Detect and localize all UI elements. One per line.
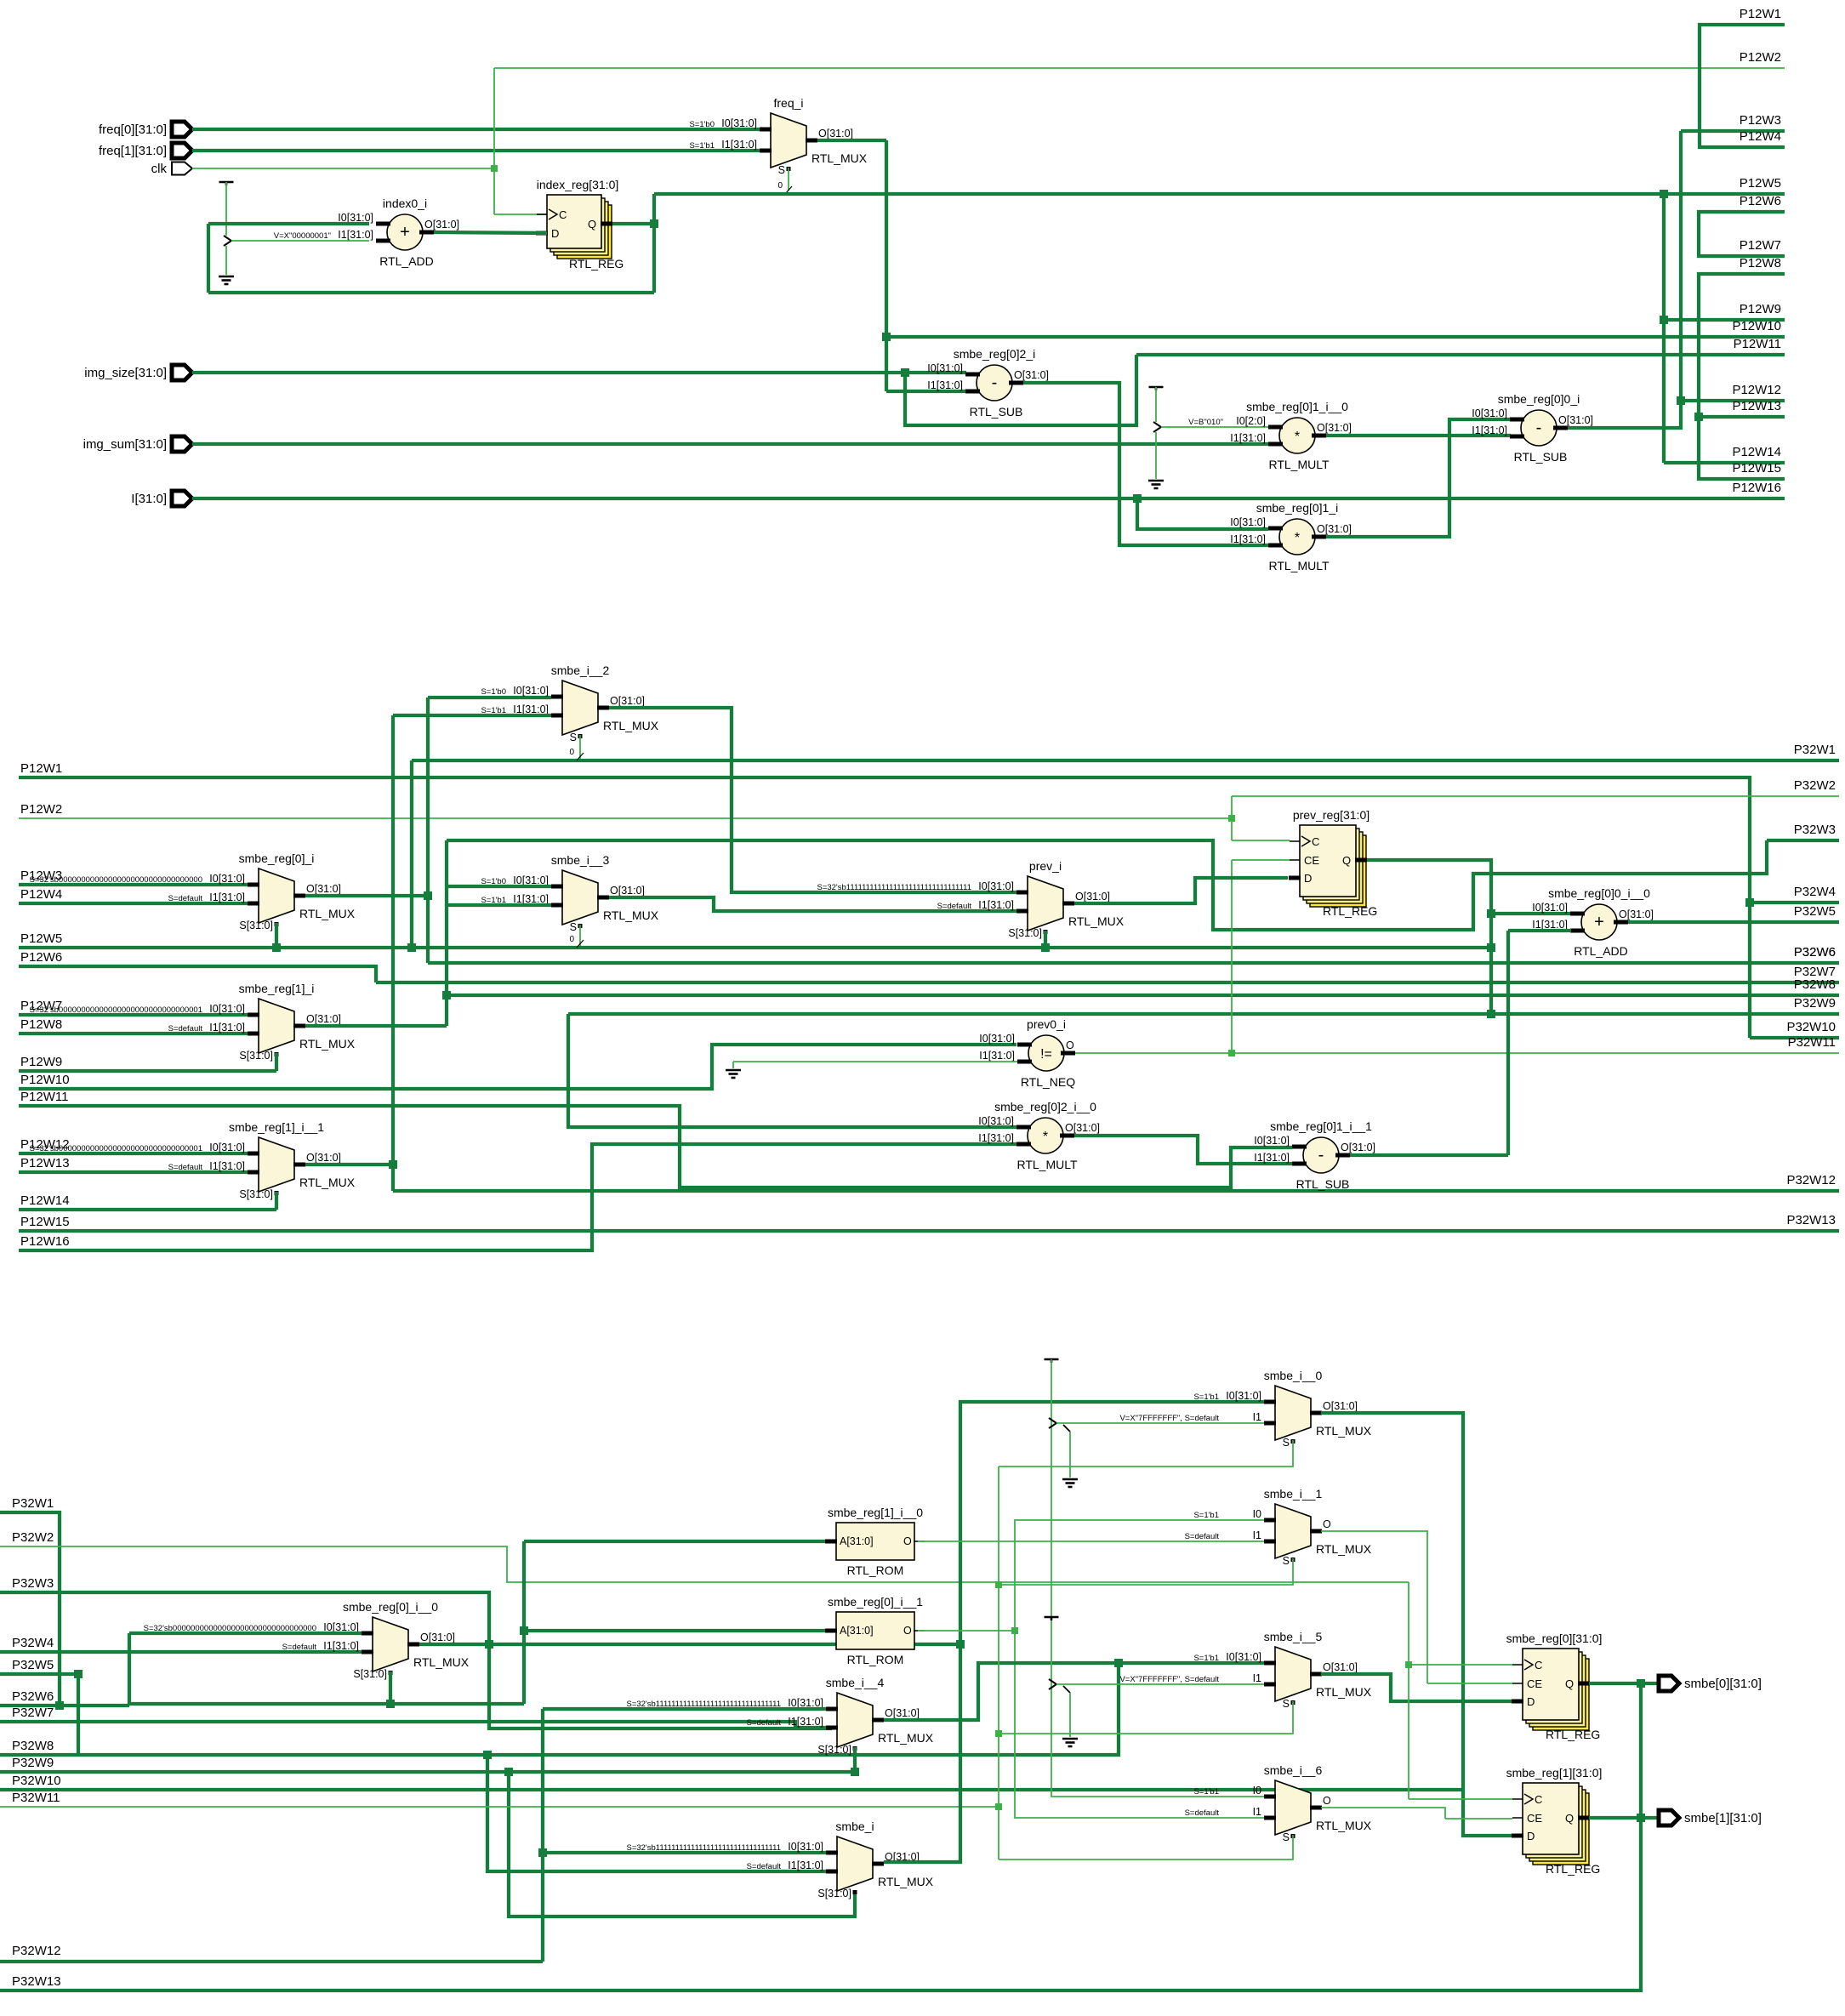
junction sel dot2: [995, 1730, 1002, 1737]
svg-text:S=default: S=default: [168, 1163, 203, 1172]
svg-text:S=32'sb00000000000000000000000: S=32'sb00000000000000000000000000000000: [30, 875, 202, 885]
wire const2 value wire: [1161, 426, 1268, 428]
wire P32W8 bottom: [0, 1663, 1119, 1755]
svg-text:C: C: [1535, 1793, 1542, 1806]
wire P32W1 net: [412, 759, 1839, 762]
svg-text:S: S: [1283, 1831, 1290, 1843]
svg-text:P12W16: P12W16: [20, 1234, 70, 1249]
ground prev0_i zero const: [726, 1069, 741, 1072]
wire P12W2 middle clk: [19, 817, 1232, 819]
wire clk to P12W2 riser: [493, 68, 495, 214]
svg-text:I0: I0: [1253, 1785, 1261, 1797]
svg-text:P32W10: P32W10: [12, 1774, 61, 1788]
svg-text:smbe_i__1: smbe_i__1: [1264, 1487, 1323, 1501]
wire smbe_i__4 I0 link: [543, 1707, 826, 1711]
wire reg0 feedback: [1639, 1683, 1643, 1818]
svg-text:CE: CE: [1527, 1812, 1542, 1825]
svg-text:S=1'b0: S=1'b0: [689, 120, 715, 129]
svg-text:0: 0: [569, 748, 574, 757]
bit-select smbe_i__2 S bit0: [577, 753, 584, 760]
svg-text:P12W8: P12W8: [1740, 256, 1781, 271]
wire smbe_reg[1]_i S riser: [275, 1053, 278, 1071]
svg-text:RTL_MUX: RTL_MUX: [603, 719, 659, 732]
ground const4 gnd: [1062, 1738, 1078, 1740]
svg-text:I1: I1: [1253, 1411, 1261, 1423]
svg-text:RTL_MUX: RTL_MUX: [1316, 1542, 1372, 1556]
wire CE riser: [1231, 860, 1233, 1053]
svg-text:+: +: [1594, 913, 1604, 931]
svg-text:I1[31:0]: I1[31:0]: [927, 379, 963, 391]
wire clk riser bottom: [1408, 1582, 1409, 1799]
svg-text:O[31:0]: O[31:0]: [1323, 1661, 1358, 1673]
svg-text:0: 0: [777, 181, 783, 191]
svg-text:RTL_ROM: RTL_ROM: [847, 1563, 904, 1577]
svg-text:index_reg[31:0]: index_reg[31:0]: [537, 178, 619, 191]
wire rom2 A wire: [524, 1629, 825, 1632]
svg-text:RTL_ADD: RTL_ADD: [379, 254, 434, 268]
wire sub0 out: [1568, 131, 1681, 428]
power/const bar const2 top: [1149, 386, 1164, 389]
wire index trunk: [1662, 194, 1666, 463]
svg-text:RTL_MUX: RTL_MUX: [878, 1875, 934, 1888]
junction prev_i S tap: [1041, 943, 1050, 952]
junction P32W9 S4 tap: [851, 1768, 859, 1776]
svg-text:smbe_reg[1]_i__1: smbe_reg[1]_i__1: [229, 1120, 324, 1134]
op smbe_reg[0]1_i__0: [1279, 418, 1315, 453]
svg-text:P32W9: P32W9: [1794, 996, 1836, 1011]
wire P12W11 middle: [19, 1106, 1292, 1187]
junction sel dot3: [995, 1803, 1002, 1810]
svg-text:O[31:0]: O[31:0]: [420, 1632, 455, 1643]
wire img_sum bus: [192, 442, 1268, 446]
junction sub0 P12W12 branch: [1677, 396, 1685, 405]
svg-text:smbe_reg[1][31:0]: smbe_reg[1][31:0]: [1506, 1766, 1603, 1780]
wire rom riser: [522, 1541, 526, 1704]
wire smbe_i__5 S: [999, 1701, 1293, 1734]
svg-text:S=default: S=default: [282, 1643, 317, 1652]
wire smbe_i__3 I1 wire: [447, 903, 551, 907]
svg-text:O[31:0]: O[31:0]: [610, 695, 645, 707]
rom smbe_reg[0]_i__1: [836, 1612, 914, 1649]
svg-text:smbe_reg[0]_i: smbe_reg[0]_i: [239, 851, 315, 865]
svg-text:P12W7: P12W7: [1740, 238, 1781, 253]
junction P32W4 branch: [1745, 898, 1754, 907]
svg-text:RTL_MUX: RTL_MUX: [1316, 1424, 1372, 1438]
svg-text:Q: Q: [1565, 1677, 1574, 1690]
svg-text:P32W5: P32W5: [12, 1658, 54, 1672]
svg-text:S: S: [1283, 1437, 1290, 1449]
wire smbe_reg[1]_i out: [305, 1024, 447, 1028]
wire smbe_i__1 out: [1321, 1531, 1427, 1683]
svg-text:O[31:0]: O[31:0]: [818, 128, 853, 140]
svg-text:I1[31:0]: I1[31:0]: [788, 1859, 823, 1871]
svg-text:P32W12: P32W12: [12, 1944, 61, 1958]
mux smbe_i__0: [1275, 1386, 1311, 1440]
junction reg0i out tap: [424, 891, 432, 900]
svg-text:P12W3: P12W3: [1740, 113, 1781, 128]
svg-text:P12W11: P12W11: [20, 1090, 68, 1104]
svg-text:S: S: [778, 164, 785, 176]
wire sub1 riser: [1506, 931, 1510, 1155]
svg-text:I0[31:0]: I0[31:0]: [1226, 1651, 1261, 1663]
junction P32W1 to P32W6: [55, 1701, 64, 1710]
svg-text:I1: I1: [1253, 1529, 1261, 1541]
svg-text:smbe[1][31:0]: smbe[1][31:0]: [1684, 1811, 1762, 1825]
svg-text:freq_i: freq_i: [773, 96, 803, 110]
wire smbe_i__1 S: [999, 1558, 1293, 1585]
wire P12W15 P32W13: [19, 1229, 1839, 1233]
register prev_reg[31:0]: [1310, 835, 1366, 907]
svg-text:smbe_i__6: smbe_i__6: [1264, 1763, 1323, 1777]
svg-text:S[31:0]: S[31:0]: [1008, 927, 1042, 939]
junction P32W5 end dot: [74, 1670, 83, 1678]
svg-text:P32W6: P32W6: [1794, 945, 1836, 960]
wire P32W5 entry: [0, 1672, 78, 1676]
svg-text:RTL_MUX: RTL_MUX: [1068, 914, 1125, 928]
wire P32W1 riser: [410, 760, 413, 948]
wire P12W12 net: [1681, 399, 1785, 402]
wire P32W9 net: [568, 1012, 1839, 1016]
svg-text:S[31:0]: S[31:0]: [239, 1050, 273, 1062]
wire select trunk: [998, 1466, 999, 1859]
svg-text:I1[31:0]: I1[31:0]: [209, 891, 245, 903]
svg-text:S=1'b1: S=1'b1: [1193, 1392, 1219, 1402]
svg-text:I0[31:0]: I0[31:0]: [1254, 1135, 1290, 1147]
wire index riser: [652, 194, 656, 293]
wire freq[0] bus: [192, 128, 760, 131]
svg-text:S: S: [1283, 1698, 1290, 1710]
wire mult0 out: [1326, 434, 1511, 437]
wire P12W13 entry: [19, 1170, 248, 1174]
wire smbe_reg[0]_i S riser: [275, 923, 278, 948]
mux smbe_i__3: [562, 870, 598, 925]
svg-text:P12W4: P12W4: [20, 887, 62, 902]
svg-text:I1[31:0]: I1[31:0]: [1472, 424, 1507, 436]
junction reg1 Q dot: [1637, 1814, 1645, 1822]
svg-text:I0[31:0]: I0[31:0]: [513, 685, 549, 697]
svg-text:RTL_REG: RTL_REG: [1546, 1728, 1600, 1741]
junction Q to adder: [1487, 909, 1495, 918]
wire P32W8 net: [447, 994, 1839, 997]
junction P32W8 smbe_i I1 tap: [483, 1751, 492, 1759]
svg-text:RTL_REG: RTL_REG: [1323, 904, 1377, 918]
port img_size[31:0]: [172, 365, 192, 380]
svg-text:P32W2: P32W2: [1794, 778, 1836, 793]
junction P32W3 x575 tap: [485, 1640, 493, 1649]
wire P32W10 entry: [0, 1788, 1463, 1791]
wire P32W6 entry: [0, 1704, 129, 1707]
svg-text:RTL_MUX: RTL_MUX: [299, 1037, 356, 1051]
wire smbe_i__5 out: [1321, 1674, 1512, 1701]
svg-text:P32W1: P32W1: [1794, 743, 1836, 757]
svg-text:O[31:0]: O[31:0]: [610, 885, 645, 897]
svg-text:smbe_reg[0]_i__1: smbe_reg[0]_i__1: [828, 1595, 923, 1609]
wire P32W9 to smbe_i S: [509, 1772, 855, 1916]
wire rom2 out: [918, 1520, 1264, 1631]
wire mux00 S riser: [389, 1671, 392, 1704]
wire adder I0 wire: [208, 222, 369, 225]
wire prev_i out: [1074, 878, 1288, 903]
wire const3 stem: [1051, 1359, 1264, 1797]
wire reg1 CE wire: [1445, 1818, 1512, 1820]
svg-text:V=X"00000001": V=X"00000001": [274, 231, 331, 241]
wire P32W12 bottom: [0, 1960, 543, 1963]
svg-text:O[31:0]: O[31:0]: [1619, 908, 1654, 920]
junction P32W8 join: [1114, 1659, 1123, 1667]
svg-text:S[31:0]: S[31:0]: [817, 1744, 851, 1756]
svg-text:S[31:0]: S[31:0]: [353, 1668, 387, 1680]
wire mux00 I0 wire: [129, 1632, 362, 1635]
wire prev0_i I1 wire: [733, 1061, 1017, 1062]
wire const3 gnd leg: [1069, 1432, 1071, 1478]
mux smbe_i: [837, 1837, 873, 1891]
wire smbe_i__2 I1 wire: [393, 714, 551, 717]
wire smbe_i out: [884, 1644, 960, 1862]
wire P12W7 entry: [19, 1013, 248, 1017]
op smbe_reg[0]0_i: [1521, 410, 1557, 446]
wire img_size jog down: [905, 355, 1136, 425]
wire P12W8 trunk: [1699, 274, 1785, 479]
wire reg0 C wire: [1409, 1664, 1512, 1666]
svg-text:O[31:0]: O[31:0]: [306, 883, 341, 895]
svg-text:I1[31:0]: I1[31:0]: [1254, 1152, 1290, 1164]
wire P32W13 bottom: [0, 1818, 1641, 1990]
svg-text:I0[31:0]: I0[31:0]: [1226, 1390, 1261, 1402]
port freq[0][31:0]: [172, 122, 192, 137]
junction P32W8 tap: [442, 991, 451, 999]
wire reg0 CE wire: [1427, 1683, 1512, 1684]
svg-text:O: O: [903, 1625, 912, 1637]
wire reg0 Q out: [1589, 1682, 1659, 1685]
wire P32W8 to smbe_i I1: [487, 1755, 826, 1871]
svg-text:S[31:0]: S[31:0]: [239, 920, 273, 931]
svg-text:P32W13: P32W13: [1786, 1213, 1836, 1227]
svg-text:smbe_i__4: smbe_i__4: [826, 1676, 885, 1689]
svg-text:O[31:0]: O[31:0]: [306, 1152, 341, 1164]
wire P12W16 middle: [19, 1144, 1016, 1250]
svg-text:P32W10: P32W10: [1786, 1020, 1836, 1034]
svg-text:D: D: [1304, 872, 1312, 885]
wire prev_reg C wire: [1232, 840, 1290, 841]
svg-text:I0[31:0]: I0[31:0]: [978, 1115, 1014, 1127]
wire adder I0 wire: [1491, 912, 1571, 915]
svg-text:P32W6: P32W6: [12, 1689, 54, 1704]
wire index_reg Q wire: [612, 222, 654, 225]
svg-text:D: D: [1527, 1830, 1535, 1842]
wire P32W7 net: [376, 981, 1839, 984]
junction reg0 Q dot: [1637, 1679, 1645, 1688]
svg-text:img_sum[31:0]: img_sum[31:0]: [83, 437, 167, 452]
wire P12W1-P12W4 link: [1700, 25, 1785, 147]
junction sel dot1: [995, 1581, 1002, 1588]
wire prev_i I1 wire (smbe_i__3 out jog): [609, 897, 1017, 911]
svg-text:I1[31:0]: I1[31:0]: [788, 1716, 823, 1728]
svg-text:I1[31:0]: I1[31:0]: [721, 139, 757, 151]
svg-text:I0[31:0]: I0[31:0]: [978, 880, 1014, 892]
wire smbe_i__3 I0 wire: [447, 885, 551, 888]
wire prev0_i I1 gnd leg: [732, 1062, 734, 1068]
svg-text:I1[31:0]: I1[31:0]: [1230, 533, 1266, 545]
bit-select smbe_i__3 S bit0: [577, 940, 584, 948]
svg-text:P12W9: P12W9: [1740, 302, 1781, 316]
svg-text:freq[1][31:0]: freq[1][31:0]: [99, 144, 167, 158]
wire P12W4 entry: [19, 902, 248, 905]
wire P32W12 net: [393, 1189, 1839, 1193]
wire smbe_i__3 S select: [579, 925, 581, 946]
junction P12W13 branch: [1694, 413, 1703, 421]
junction neq out tap: [1228, 1050, 1235, 1056]
wire freq[1] bus: [192, 149, 760, 152]
const tap const4 tap: [1049, 1679, 1056, 1689]
wire smbe_reg[1]_i__1 out: [305, 1163, 393, 1166]
wire smbe_i__0 out: [1321, 1413, 1512, 1836]
svg-text:I1[31:0]: I1[31:0]: [1230, 432, 1266, 444]
junction smbe_i I0 tap: [538, 1848, 547, 1857]
junction smbe_i out join: [956, 1640, 965, 1649]
svg-text:O[31:0]: O[31:0]: [1014, 369, 1049, 381]
wire x462 trunk: [391, 715, 395, 1191]
power/const bar const3 top: [1045, 1358, 1059, 1361]
svg-text:I0[31:0]: I0[31:0]: [979, 1033, 1015, 1045]
wire prev0_i out: [1075, 1052, 1232, 1054]
svg-text:smbe_reg[0]_i__0: smbe_reg[0]_i__0: [343, 1600, 438, 1614]
wire P12W12 entry: [19, 1152, 248, 1155]
svg-text:S=32'sb11111111111111111111111: S=32'sb11111111111111111111111111111111: [626, 1843, 781, 1853]
svg-text:smbe_reg[0]2_i__0: smbe_reg[0]2_i__0: [994, 1100, 1096, 1113]
wire reg1 C wire: [1409, 1798, 1512, 1800]
svg-text:S: S: [570, 732, 577, 743]
mux smbe_reg[0]_i: [259, 868, 294, 923]
svg-text:O[31:0]: O[31:0]: [306, 1013, 341, 1025]
wire smbe_i__0 S: [999, 1440, 1293, 1466]
net tick const3 gnd tick: [1063, 1425, 1070, 1432]
wire rom1 A wire: [524, 1540, 825, 1543]
junction clk junction: [491, 165, 498, 172]
svg-text:RTL_MUX: RTL_MUX: [1316, 1819, 1372, 1832]
register smbe_reg[1][31:0]: [1533, 1793, 1589, 1865]
wire P12W13 net: [1699, 415, 1785, 419]
wire mult2 I0 riser: [568, 1014, 1016, 1127]
svg-text:P12W14: P12W14: [1732, 445, 1781, 459]
svg-text:O[31:0]: O[31:0]: [1317, 422, 1352, 434]
svg-text:RTL_NEQ: RTL_NEQ: [1021, 1075, 1075, 1089]
svg-text:P12W4: P12W4: [1740, 129, 1781, 144]
svg-text:I1[31:0]: I1[31:0]: [338, 229, 373, 241]
svg-text:I0[31:0]: I0[31:0]: [927, 362, 963, 374]
svg-text:S=32'sb00000000000000000000000: S=32'sb00000000000000000000000000000001: [30, 1005, 202, 1015]
wire P12W6-P12W7 link: [1699, 212, 1785, 256]
svg-text:smbe_i__5: smbe_i__5: [1264, 1630, 1323, 1643]
wire adder out P32W5: [1628, 920, 1839, 924]
svg-text:I0[31:0]: I0[31:0]: [1230, 516, 1266, 528]
wire P32W1 bottom: [0, 1512, 60, 1706]
svg-text:P12W11: P12W11: [1734, 337, 1781, 351]
op smbe_reg[0]0_i__0: [1581, 904, 1617, 940]
svg-text:O[31:0]: O[31:0]: [1341, 1142, 1375, 1153]
svg-text:A[31:0]: A[31:0]: [840, 1535, 874, 1547]
svg-text:S=default: S=default: [747, 1718, 782, 1728]
wire mult1 out: [1326, 419, 1521, 537]
junction index trunk tap: [1660, 190, 1668, 198]
junction clk mid junction: [1228, 815, 1235, 822]
svg-text:P32W11: P32W11: [1788, 1035, 1836, 1050]
svg-text:A[31:0]: A[31:0]: [840, 1625, 874, 1637]
op index0_i: [387, 214, 423, 250]
svg-text:RTL_MUX: RTL_MUX: [811, 151, 868, 165]
svg-text:smbe_reg[1]_i__0: smbe_reg[1]_i__0: [828, 1506, 923, 1519]
wire const4 gnd leg: [1069, 1693, 1071, 1737]
svg-text:I0[31:0]: I0[31:0]: [788, 1841, 823, 1853]
wire P32W7 bottom: [0, 1722, 826, 1728]
wire index feedback left: [207, 224, 210, 293]
svg-text:P12W6: P12W6: [1740, 194, 1781, 208]
junction Q junction: [650, 219, 658, 228]
svg-text:I0: I0: [1253, 1508, 1261, 1520]
svg-text:P12W14: P12W14: [20, 1193, 70, 1208]
svg-text:I1[31:0]: I1[31:0]: [979, 1050, 1015, 1062]
svg-text:P12W5: P12W5: [20, 931, 62, 946]
op smbe_reg[0]1_i: [1279, 519, 1315, 555]
svg-text:O[31:0]: O[31:0]: [1323, 1400, 1358, 1412]
svg-text:prev_i: prev_i: [1029, 859, 1062, 873]
svg-text:0: 0: [569, 935, 574, 944]
wire P32W2 net: [1232, 795, 1839, 797]
svg-text:RTL_MUX: RTL_MUX: [299, 907, 356, 920]
svg-text:RTL_SUB: RTL_SUB: [970, 405, 1023, 419]
wire freq_i S select: [788, 168, 789, 191]
svg-text:I1[31:0]: I1[31:0]: [209, 1022, 245, 1034]
svg-text:Q: Q: [1565, 1812, 1574, 1825]
svg-text:P32W8: P32W8: [1794, 977, 1836, 992]
wire P12W11 net: [1136, 353, 1785, 356]
wire sub2 out: [1023, 383, 1268, 545]
svg-text:P32W8: P32W8: [12, 1739, 54, 1753]
wire P12W9 net: [1664, 318, 1785, 322]
power/const bar const1 top: [219, 181, 234, 184]
svg-text:smbe_reg[1]_i: smbe_reg[1]_i: [239, 982, 315, 995]
svg-text:D: D: [551, 227, 559, 240]
wire freq_i output: [817, 139, 886, 142]
wire P12W14 middle: [19, 1208, 276, 1211]
wire P32W4 entry: [0, 1650, 362, 1654]
wire const4 value: [1056, 1683, 1264, 1685]
const tap const2 tap: [1153, 422, 1161, 432]
junction img_size branch: [901, 368, 909, 377]
wire P32W3 bottom: [0, 1592, 832, 1728]
svg-text:S: S: [1283, 1555, 1290, 1567]
mux smbe_i__2: [562, 681, 598, 735]
svg-text:C: C: [1535, 1659, 1542, 1671]
wire I to mult I0: [1137, 498, 1268, 529]
wire smbe_i__6 S: [999, 1835, 1293, 1859]
svg-text:I0[31:0]: I0[31:0]: [1472, 407, 1507, 419]
wire P12W1 middle: [19, 777, 1750, 1038]
wire P32W4 net: [1750, 901, 1839, 904]
wire mult2 out: [1074, 1136, 1292, 1164]
svg-text:O[31:0]: O[31:0]: [885, 1707, 920, 1719]
mux smbe_reg[0]_i__0: [373, 1617, 408, 1671]
wire x638 trunk: [541, 1709, 544, 1962]
svg-text:img_size[31:0]: img_size[31:0]: [84, 366, 167, 380]
wire P12W5 middle: [19, 946, 1493, 949]
svg-text:P32W7: P32W7: [12, 1706, 54, 1720]
port I[31:0]: [172, 491, 192, 506]
svg-text:P32W1: P32W1: [12, 1496, 54, 1511]
svg-text:RTL_MUX: RTL_MUX: [1316, 1685, 1372, 1699]
junction P12W9 branch: [1660, 316, 1668, 324]
svg-text:smbe_reg[0]1_i__0: smbe_reg[0]1_i__0: [1246, 400, 1348, 413]
svg-text:index0_i: index0_i: [383, 196, 427, 210]
